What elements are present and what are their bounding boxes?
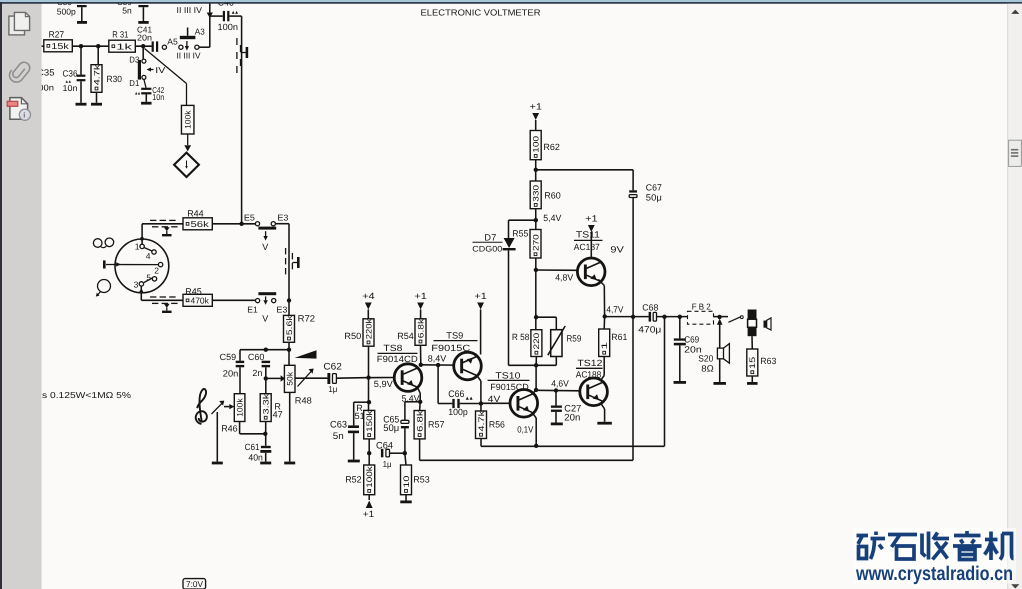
svg-text:TS11: TS11 bbox=[576, 229, 600, 239]
switch contact E1 bbox=[247, 299, 259, 315]
label 5.4V bbox=[543, 213, 561, 223]
node bbox=[534, 218, 538, 222]
wire bbox=[603, 316, 605, 329]
wire bbox=[368, 439, 370, 465]
svg-text:0,1V: 0,1V bbox=[517, 424, 533, 434]
svg-text:100: 100 bbox=[532, 135, 541, 152]
svg-text:R56: R56 bbox=[489, 419, 505, 429]
tube pin 1 bbox=[135, 242, 145, 252]
svg-text:R48: R48 bbox=[295, 395, 312, 405]
wire bbox=[509, 220, 536, 238]
svg-text:8Ω: 8Ω bbox=[701, 363, 714, 373]
volume wedge bbox=[295, 350, 317, 358]
svg-text:R 31: R 31 bbox=[112, 29, 128, 39]
node bbox=[534, 268, 538, 272]
watermark crystalradio logo bbox=[857, 531, 1014, 560]
node bbox=[554, 388, 558, 392]
wire emitter bus bbox=[481, 317, 665, 447]
wire bbox=[212, 299, 255, 301]
cathode circle bbox=[96, 280, 111, 297]
resistor R46 bbox=[221, 394, 245, 434]
resistor R44 bbox=[183, 209, 212, 230]
node bbox=[603, 314, 607, 318]
svg-text:C66: C66 bbox=[448, 389, 464, 400]
svg-text:10: 10 bbox=[402, 475, 411, 488]
shield ground bbox=[162, 304, 172, 313]
wire bbox=[533, 414, 536, 446]
svg-text:5n: 5n bbox=[333, 431, 344, 442]
svg-text:R54: R54 bbox=[397, 331, 414, 341]
svg-text:E1: E1 bbox=[247, 304, 258, 314]
svg-text:C62: C62 bbox=[323, 362, 342, 373]
svg-text:i: i bbox=[23, 111, 25, 120]
svg-text:+1: +1 bbox=[530, 102, 543, 112]
node bbox=[367, 400, 371, 404]
wire bbox=[135, 45, 152, 47]
resistor R60 bbox=[530, 181, 561, 209]
supply +1 bbox=[585, 214, 598, 259]
capacitor C59 bbox=[220, 350, 245, 394]
supply +1 bbox=[474, 291, 487, 355]
sidebar attachments icon bbox=[9, 62, 29, 82]
svg-text:R27: R27 bbox=[49, 29, 65, 39]
svg-text:C59: C59 bbox=[220, 352, 237, 362]
label 7.0V bbox=[183, 579, 206, 589]
capacitor C38 bbox=[57, 0, 87, 24]
resistor R30 bbox=[91, 46, 122, 103]
svg-text:+1: +1 bbox=[474, 291, 487, 301]
wire bbox=[142, 46, 144, 59]
wire bbox=[212, 223, 255, 225]
headphone icon bbox=[764, 318, 772, 330]
capacitor C40 bbox=[210, 0, 242, 32]
svg-text:5,4V: 5,4V bbox=[402, 394, 420, 404]
node bbox=[419, 363, 423, 367]
capacitor C65 bbox=[383, 402, 409, 453]
svg-text:R72: R72 bbox=[298, 314, 316, 324]
svg-text:+1: +1 bbox=[585, 214, 598, 224]
wire bbox=[216, 412, 218, 462]
svg-text:4,7V: 4,7V bbox=[606, 305, 623, 315]
ground bbox=[674, 381, 687, 384]
svg-text:10n: 10n bbox=[63, 83, 78, 93]
resistor R55 bbox=[512, 220, 541, 258]
wire bbox=[295, 377, 328, 379]
svg-text:TS10: TS10 bbox=[495, 370, 520, 380]
input switch blade bbox=[212, 401, 225, 414]
svg-text:1k: 1k bbox=[116, 41, 133, 51]
switch contact bbox=[185, 41, 199, 51]
ground bbox=[141, 102, 152, 105]
switch common bar A3 bbox=[180, 27, 205, 40]
svg-text:2n: 2n bbox=[252, 368, 262, 378]
top title bar bbox=[0, 0, 1022, 4]
capacitor C39 bbox=[117, 0, 149, 24]
svg-text:R50: R50 bbox=[344, 331, 361, 341]
wire bbox=[477, 376, 481, 404]
note tolerance bbox=[42, 390, 131, 400]
arrow into R46 bbox=[224, 404, 234, 409]
supply +1 bbox=[363, 495, 375, 519]
node bbox=[534, 388, 538, 392]
resistor R56 bbox=[476, 404, 505, 439]
node bbox=[717, 315, 721, 319]
svg-text:4V: 4V bbox=[488, 394, 501, 404]
svg-text:R52: R52 bbox=[345, 475, 362, 485]
svg-text:R61: R61 bbox=[611, 332, 627, 342]
node bbox=[263, 432, 267, 436]
resistor R54 bbox=[397, 318, 426, 346]
wire bbox=[605, 316, 649, 318]
ground bbox=[348, 460, 360, 463]
node bbox=[264, 348, 268, 352]
wire bbox=[336, 377, 394, 380]
svg-text:+1: +1 bbox=[363, 509, 375, 519]
ground bbox=[551, 423, 563, 426]
svg-text:50μ: 50μ bbox=[383, 423, 399, 434]
ground bbox=[400, 501, 412, 504]
tube pin 3 bbox=[134, 279, 144, 289]
svg-text:2: 2 bbox=[154, 266, 159, 276]
node bbox=[418, 400, 422, 404]
resistor R61 bbox=[599, 329, 628, 357]
tube V1 envelope bbox=[115, 239, 169, 293]
switch D3 bbox=[129, 54, 165, 79]
probe connector bbox=[174, 134, 199, 177]
svg-text:56k: 56k bbox=[191, 219, 210, 229]
output switch blade bbox=[728, 316, 743, 322]
ground bbox=[747, 382, 758, 385]
switch contact A5 bbox=[162, 36, 178, 49]
svg-text:220: 220 bbox=[532, 332, 541, 349]
thermistor R59 bbox=[548, 326, 582, 357]
svg-text:R63: R63 bbox=[760, 356, 776, 366]
svg-text:4.7k: 4.7k bbox=[477, 410, 486, 432]
wire bbox=[275, 224, 289, 301]
ground bbox=[212, 462, 223, 465]
svg-text:100p: 100p bbox=[448, 407, 468, 417]
scrollbar bbox=[1007, 4, 1022, 589]
svg-text:4,6V: 4,6V bbox=[551, 379, 569, 389]
svg-text:5.6k: 5.6k bbox=[285, 314, 294, 335]
ground bbox=[260, 462, 271, 465]
switch contact bbox=[179, 45, 183, 49]
resistor R62 bbox=[530, 131, 560, 160]
resistor R50 bbox=[344, 318, 374, 347]
wire bbox=[265, 422, 267, 446]
transistor TS9 bbox=[431, 330, 481, 380]
ground bbox=[597, 422, 612, 425]
wire feedback bus bbox=[420, 317, 633, 461]
svg-text:TS8: TS8 bbox=[383, 343, 402, 353]
jack plug bbox=[748, 310, 757, 337]
wire bbox=[509, 357, 557, 366]
title bbox=[421, 7, 541, 17]
svg-text:20n: 20n bbox=[137, 33, 152, 43]
node bbox=[239, 222, 243, 226]
shield screen bbox=[237, 38, 248, 73]
node bbox=[534, 444, 538, 448]
svg-text:20n: 20n bbox=[223, 369, 239, 379]
svg-text:+4: +4 bbox=[362, 291, 375, 301]
resistor R31 bbox=[109, 29, 136, 52]
wire bbox=[535, 258, 537, 330]
adjust arrow bbox=[298, 369, 314, 387]
shield ground bbox=[162, 227, 172, 236]
node bbox=[534, 315, 538, 319]
svg-text:220k: 220k bbox=[364, 318, 373, 340]
capacitor C62 bbox=[323, 362, 342, 395]
wire bbox=[368, 346, 370, 410]
label 4.8V bbox=[555, 273, 573, 283]
svg-text:4: 4 bbox=[146, 251, 151, 261]
transistor TS8 bbox=[377, 343, 422, 391]
wire bbox=[536, 317, 556, 330]
svg-text:C63: C63 bbox=[330, 419, 347, 430]
wire bbox=[438, 365, 452, 403]
svg-text:C69: C69 bbox=[684, 334, 699, 344]
transistor TS11 bbox=[574, 229, 605, 285]
resistor R51 bbox=[355, 403, 375, 439]
capacitor C36 bbox=[63, 46, 86, 103]
capacitor C41 bbox=[137, 25, 158, 52]
resistor R45 bbox=[183, 286, 212, 306]
capacitor C68 bbox=[638, 302, 687, 334]
label 5.9V bbox=[374, 379, 393, 389]
svg-text:F9015C: F9015C bbox=[431, 343, 471, 353]
label 8.4V bbox=[428, 354, 447, 364]
svg-text:s 0.125W<1MΩ 5%: s 0.125W<1MΩ 5% bbox=[42, 390, 131, 400]
svg-text:100n: 100n bbox=[218, 22, 239, 32]
label 5.4V bbox=[402, 394, 420, 404]
ground bbox=[76, 103, 87, 106]
audio input clef bbox=[196, 389, 207, 424]
svg-text:4.7k: 4.7k bbox=[92, 63, 101, 85]
wire bbox=[240, 349, 289, 351]
svg-text:7:0V: 7:0V bbox=[186, 579, 203, 589]
svg-text:40n: 40n bbox=[248, 453, 263, 463]
node bbox=[534, 168, 538, 172]
wire bbox=[241, 16, 243, 224]
svg-text:TS12: TS12 bbox=[577, 358, 602, 368]
label range II III IV bbox=[177, 50, 201, 60]
resistor R63 bbox=[747, 336, 777, 382]
svg-text:150k: 150k bbox=[365, 409, 374, 432]
label 9V bbox=[610, 244, 624, 254]
wire bbox=[600, 357, 604, 381]
tube pin 4 bbox=[144, 248, 156, 262]
wire bbox=[405, 401, 420, 403]
svg-text:R57: R57 bbox=[428, 419, 445, 429]
svg-text:R30: R30 bbox=[107, 74, 123, 84]
wire bbox=[288, 342, 290, 365]
capacitor C64 bbox=[376, 440, 405, 469]
watermark halo bbox=[853, 528, 1016, 584]
ground bbox=[284, 462, 295, 465]
svg-text:V: V bbox=[262, 313, 268, 323]
switch contact E3 bbox=[272, 299, 288, 315]
wire bbox=[140, 224, 144, 244]
svg-text:E5: E5 bbox=[244, 212, 255, 222]
resistor R52 bbox=[345, 465, 375, 495]
svg-text:D1: D1 bbox=[129, 78, 139, 88]
svg-text:C68: C68 bbox=[642, 302, 658, 312]
svg-text:A3: A3 bbox=[195, 27, 205, 37]
svg-text:C36: C36 bbox=[63, 68, 78, 78]
wire bbox=[421, 345, 454, 365]
shield screen bbox=[286, 248, 300, 274]
wire bbox=[481, 402, 510, 404]
svg-text:20n: 20n bbox=[564, 412, 580, 423]
svg-text:R55: R55 bbox=[512, 228, 528, 238]
svg-text:15k: 15k bbox=[51, 41, 69, 51]
svg-text:C60: C60 bbox=[248, 352, 265, 362]
capacitor C60 bbox=[248, 352, 270, 394]
label 4.7V bbox=[606, 305, 623, 315]
wire 4.6V bbox=[536, 389, 580, 392]
wire bbox=[601, 403, 605, 422]
svg-text:100k: 100k bbox=[365, 465, 374, 488]
svg-text:E3: E3 bbox=[277, 212, 288, 222]
svg-text:+1: +1 bbox=[414, 291, 427, 301]
potentiometer R48 bbox=[284, 365, 311, 405]
ground bbox=[713, 382, 726, 385]
svg-text:50μ: 50μ bbox=[646, 193, 662, 203]
ferrite bead FB2 bbox=[688, 301, 714, 324]
wire bbox=[714, 316, 729, 318]
capacitor C27 bbox=[551, 391, 581, 424]
tube grid line bbox=[106, 262, 158, 266]
svg-text:3.3k: 3.3k bbox=[262, 392, 271, 414]
capacitor C66 bbox=[448, 389, 481, 417]
resistor 100k probe bbox=[181, 105, 194, 134]
capacitor C63 bbox=[330, 402, 369, 459]
svg-text:C61: C61 bbox=[245, 442, 260, 452]
svg-text:8,4V: 8,4V bbox=[428, 354, 447, 364]
svg-text:3: 3 bbox=[134, 279, 139, 289]
sidebar pages icon bbox=[9, 12, 30, 35]
node bbox=[141, 44, 145, 48]
node bbox=[96, 44, 100, 48]
svg-text:ELECTRONIC VOLTMETER: ELECTRONIC VOLTMETER bbox=[421, 7, 541, 17]
svg-text:R44: R44 bbox=[187, 209, 204, 219]
svg-text:5,9V: 5,9V bbox=[374, 379, 393, 389]
svg-text:D7: D7 bbox=[484, 232, 496, 242]
svg-text:100k: 100k bbox=[184, 109, 193, 128]
label 0.1V bbox=[517, 424, 533, 434]
wire bbox=[536, 170, 633, 191]
svg-text:5n: 5n bbox=[122, 5, 132, 15]
node bbox=[366, 375, 370, 379]
svg-text:AC188: AC188 bbox=[576, 369, 602, 379]
label 4V bbox=[488, 394, 501, 404]
supply +1 bbox=[530, 102, 543, 131]
svg-text:R46: R46 bbox=[221, 423, 238, 433]
node bbox=[436, 363, 440, 367]
wire bbox=[72, 45, 109, 47]
svg-text:R53: R53 bbox=[413, 475, 430, 485]
tube pin 5 bbox=[144, 272, 157, 282]
node bbox=[79, 44, 83, 48]
supply +4 bbox=[362, 291, 375, 319]
node bbox=[287, 348, 291, 352]
sidebar document info icon bbox=[7, 98, 30, 121]
svg-text:10n: 10n bbox=[152, 92, 164, 102]
label 4.6V bbox=[551, 379, 569, 389]
svg-text:330: 330 bbox=[532, 184, 541, 201]
wire bbox=[289, 392, 291, 461]
svg-text:R 58: R 58 bbox=[512, 332, 530, 342]
resistor R72 bbox=[284, 301, 316, 343]
wire bbox=[140, 286, 184, 300]
svg-text:F9014CD: F9014CD bbox=[377, 354, 419, 364]
resistor R27 bbox=[44, 29, 73, 52]
resistor R53 bbox=[401, 465, 430, 501]
svg-text:5,4V: 5,4V bbox=[543, 213, 561, 223]
transistor TS12 bbox=[576, 358, 608, 406]
node bbox=[367, 451, 371, 455]
wire bbox=[240, 422, 265, 434]
transistor TS10 bbox=[488, 370, 538, 417]
svg-text:15: 15 bbox=[748, 356, 757, 369]
svg-text:C64: C64 bbox=[376, 440, 393, 451]
supply +1 bbox=[414, 291, 427, 319]
node bbox=[403, 451, 407, 455]
switch contact E3 bbox=[271, 212, 288, 225]
svg-text:51: 51 bbox=[355, 411, 365, 421]
svg-text:V: V bbox=[262, 242, 268, 252]
diode D7 bbox=[472, 232, 515, 365]
shield screen R44 bbox=[150, 220, 178, 226]
svg-text:100k: 100k bbox=[236, 397, 245, 416]
svg-text:R59: R59 bbox=[566, 334, 581, 344]
svg-text:II III IV: II III IV bbox=[177, 5, 203, 15]
wiper wire bbox=[264, 375, 285, 382]
svg-text:1: 1 bbox=[600, 341, 609, 350]
viewer sidebar bbox=[0, 0, 42, 589]
svg-text:S20: S20 bbox=[698, 353, 713, 363]
tube pin 2 bbox=[154, 262, 163, 275]
wire bbox=[142, 223, 183, 225]
svg-text:IV: IV bbox=[155, 65, 165, 75]
watermark url bbox=[855, 563, 1013, 585]
svg-text:R60: R60 bbox=[544, 190, 561, 200]
svg-text:R62: R62 bbox=[543, 142, 560, 152]
capacitor C67 bbox=[629, 183, 662, 317]
svg-text:AC187: AC187 bbox=[574, 242, 600, 252]
node bbox=[678, 315, 682, 319]
wire bbox=[536, 269, 578, 271]
switch bar bbox=[258, 227, 276, 252]
node bbox=[662, 315, 666, 319]
svg-text:470k: 470k bbox=[191, 296, 210, 306]
wire bbox=[405, 453, 406, 465]
capacitor C42 bbox=[135, 79, 165, 102]
svg-text:47: 47 bbox=[273, 410, 283, 420]
svg-text:A5: A5 bbox=[167, 36, 178, 46]
ground bbox=[91, 103, 102, 106]
heater circles bbox=[93, 238, 113, 248]
wire bbox=[145, 49, 187, 106]
wire C40 branch bbox=[199, 3, 213, 47]
svg-text:C67: C67 bbox=[646, 183, 662, 193]
switch contact E5 bbox=[244, 212, 260, 225]
label range II III IV bbox=[177, 5, 203, 15]
svg-text:9V: 9V bbox=[610, 244, 624, 254]
svg-text:www.crystalradio.cn: www.crystalradio.cn bbox=[855, 563, 1013, 585]
svg-text:470μ: 470μ bbox=[638, 325, 661, 335]
switch bar bbox=[258, 292, 276, 323]
